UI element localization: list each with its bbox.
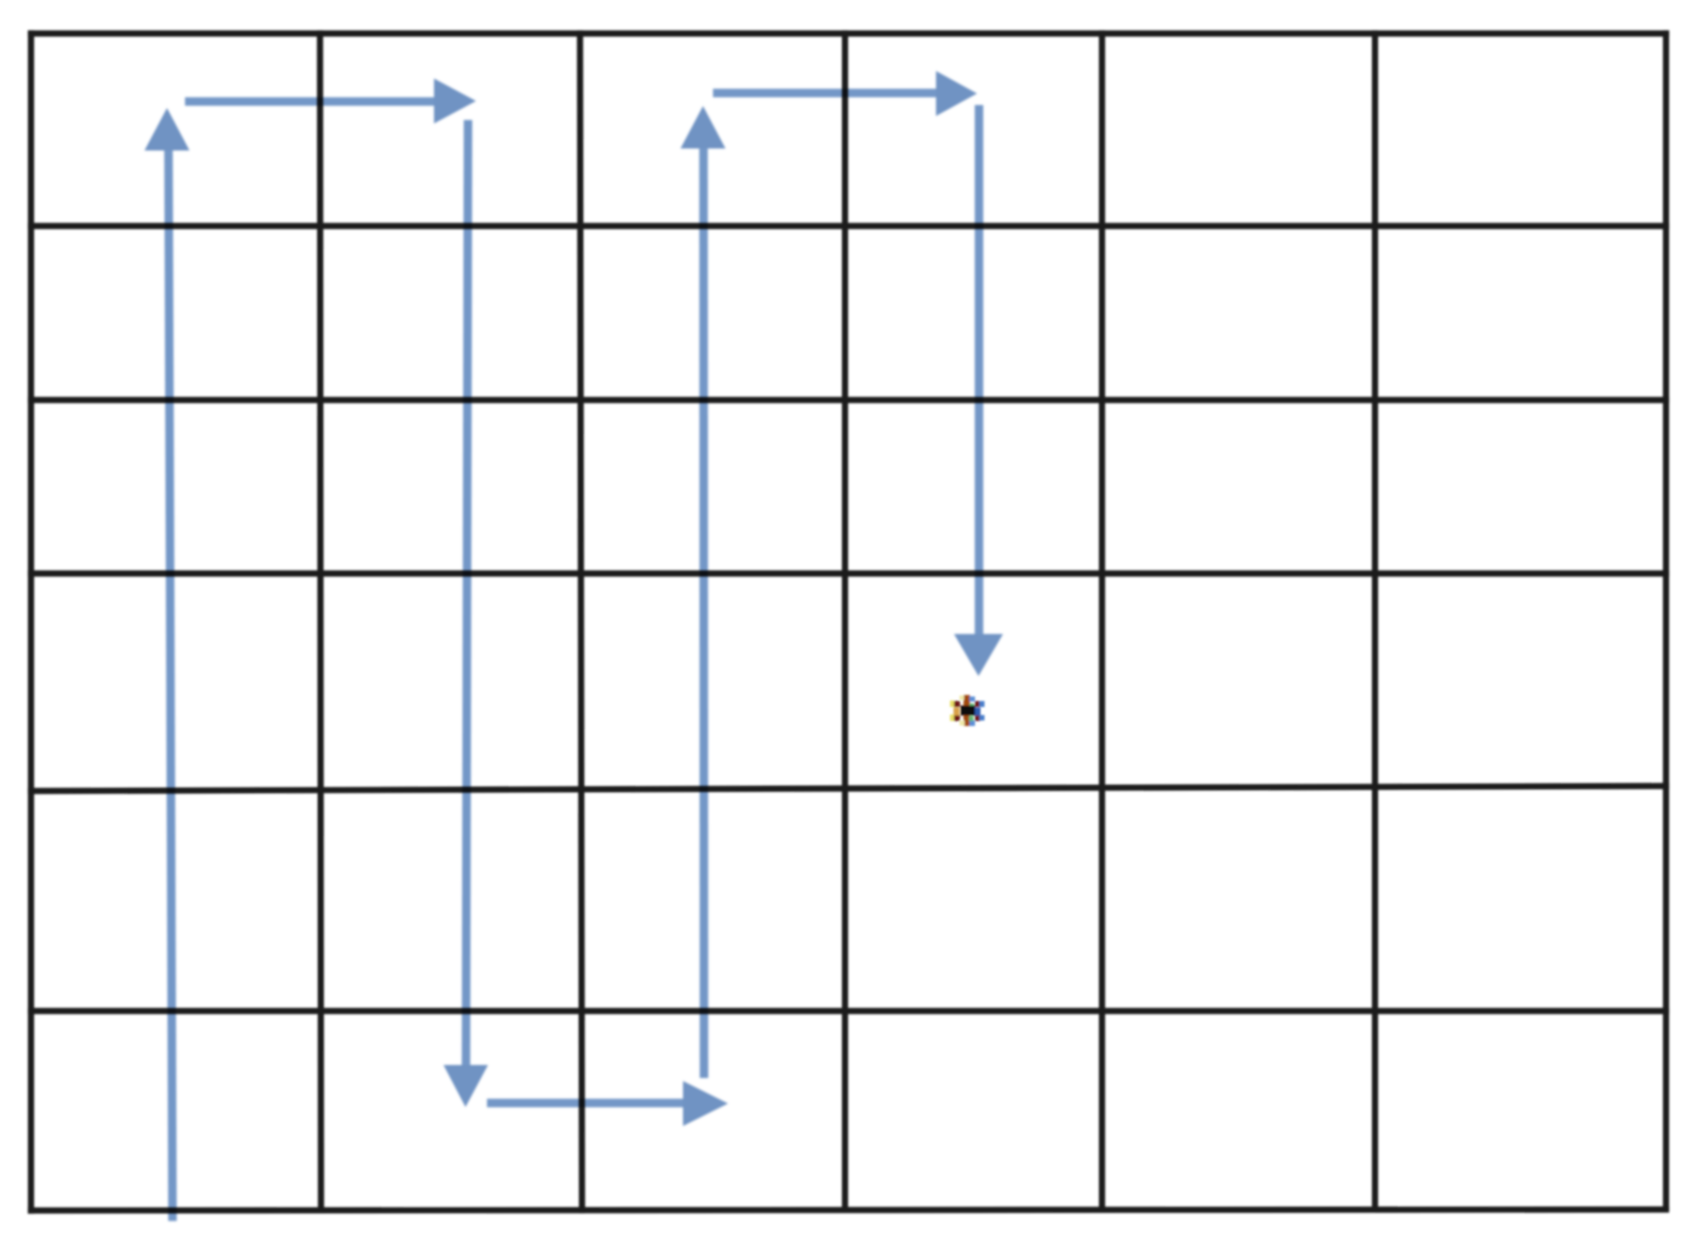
grid right border [1663,34,1669,1209]
grid column line 5 [1099,34,1105,1210]
grid column line 2 [320,34,321,1211]
arrow segment 3: down arrowhead [444,1065,489,1107]
grid row line 6 [31,1008,1666,1014]
arrow segment 1: up arrowhead [145,108,190,151]
arrow segment 7: down line shaft [975,105,984,636]
arrow segment 1: up line shaft [169,150,173,1221]
arrow path (blue serpentine) [145,71,1004,1221]
arrow segment 6: right line shaft at top-middle [713,89,939,98]
grid row line 3 [31,397,1666,403]
grid row line 4 [31,570,1666,576]
asterisk marker [950,695,985,726]
grid top border [31,30,1666,36]
grid row line 2 [31,223,1666,229]
grid column line 4 [842,34,848,1210]
grid column line 6 [1372,34,1378,1209]
arrow segment 4: right line shaft at bottom [487,1099,685,1108]
arrow segment 5: up arrowhead [681,106,726,149]
grid bottom border [31,1210,1666,1211]
arrow segment 7: down arrowhead [954,634,1003,676]
arrow segment 5: up line shaft [699,148,708,1078]
arrow segment 3: down line shaft [466,120,468,1066]
arrow segment 4: right arrowhead [683,1081,728,1126]
grid row line 5 [31,786,1666,791]
arrow segment 2: right line shaft at top-left [185,97,436,106]
arrow segment 6: right arrowhead [936,71,977,116]
grid column line 3 [580,34,582,1211]
arrow segment 2: right arrowhead [434,79,476,124]
grid left border [28,34,34,1211]
